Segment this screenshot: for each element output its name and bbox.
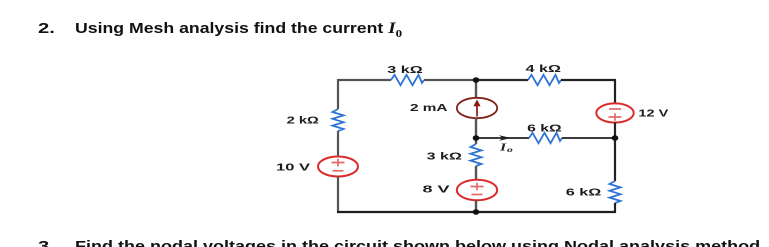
wire middle branch between resistor and 8V: [475, 166, 477, 181]
resistor R1 3k top label: [387, 65, 422, 76]
node D bottom of middle branch: [473, 209, 480, 215]
resistor R4 6k right zigzag: [610, 181, 621, 203]
svg-text:o: o: [507, 146, 514, 154]
resistor R3 2k label: [287, 116, 319, 127]
svg-text:8 V: 8 V: [423, 185, 451, 196]
wire top-middle segment: [424, 79, 476, 81]
current arrow Io: [499, 135, 511, 141]
node A top of middle branch: [473, 77, 480, 83]
source V2 12V label: [638, 109, 668, 120]
wire top-right segment: [561, 79, 616, 81]
resistor R5 3k middle label: [427, 152, 462, 163]
resistor R6 6k middle zigzag: [529, 133, 562, 143]
wire middle branch upper: [475, 80, 477, 99]
resistor R6 6k middle label: [527, 124, 562, 135]
svg-text:3 kΩ: 3 kΩ: [427, 152, 462, 163]
node B middle junction: [473, 135, 480, 141]
wire right vertical middle: [614, 123, 616, 182]
wire middle branch lower: [475, 200, 477, 212]
source V1 10V label: [276, 162, 311, 173]
wire left vertical upper: [337, 79, 339, 109]
wire middle branch between source and resistor: [475, 118, 477, 144]
label Io: [498, 143, 513, 155]
resistor R5 3k middle zigzag: [471, 144, 482, 166]
wire top-middle-right segment: [476, 79, 528, 81]
svg-text:6 kΩ: 6 kΩ: [566, 188, 602, 199]
resistor R3 2k zigzag: [333, 109, 344, 131]
node C right junction: [612, 135, 619, 141]
title question 2: [38, 20, 352, 40]
source V2 12V circle: [596, 103, 633, 122]
source V3 8V circle: [457, 180, 497, 200]
wire bottom: [337, 211, 616, 213]
resistor R4 6k right label: [566, 188, 602, 199]
partially visible question 3 at bottom: [38, 238, 645, 247]
wire middle horizontal right part: [562, 137, 616, 139]
resistor R1 3k top zigzag: [391, 75, 424, 85]
source V1 10V circle: [318, 157, 358, 177]
source I1 2mA circle with up arrow: [457, 98, 497, 118]
wire left vertical middle: [337, 131, 339, 157]
resistor R2 4k top zigzag: [528, 75, 561, 85]
svg-text:2 mA: 2 mA: [410, 103, 448, 114]
svg-text:12 V: 12 V: [638, 109, 668, 120]
svg-text:3 kΩ: 3 kΩ: [387, 65, 422, 76]
wire middle horizontal left part: [476, 137, 529, 139]
source I1 2mA label: [410, 103, 448, 114]
wire top-left segment: [338, 79, 391, 81]
wire left vertical lower: [337, 177, 339, 214]
source V3 8V label: [423, 185, 451, 196]
wire right vertical upper: [614, 80, 616, 104]
svg-text:2 kΩ: 2 kΩ: [287, 116, 319, 127]
resistor R2 4k top label: [526, 64, 561, 75]
wire right vertical lower: [614, 203, 616, 213]
svg-text:10 V: 10 V: [276, 162, 311, 173]
